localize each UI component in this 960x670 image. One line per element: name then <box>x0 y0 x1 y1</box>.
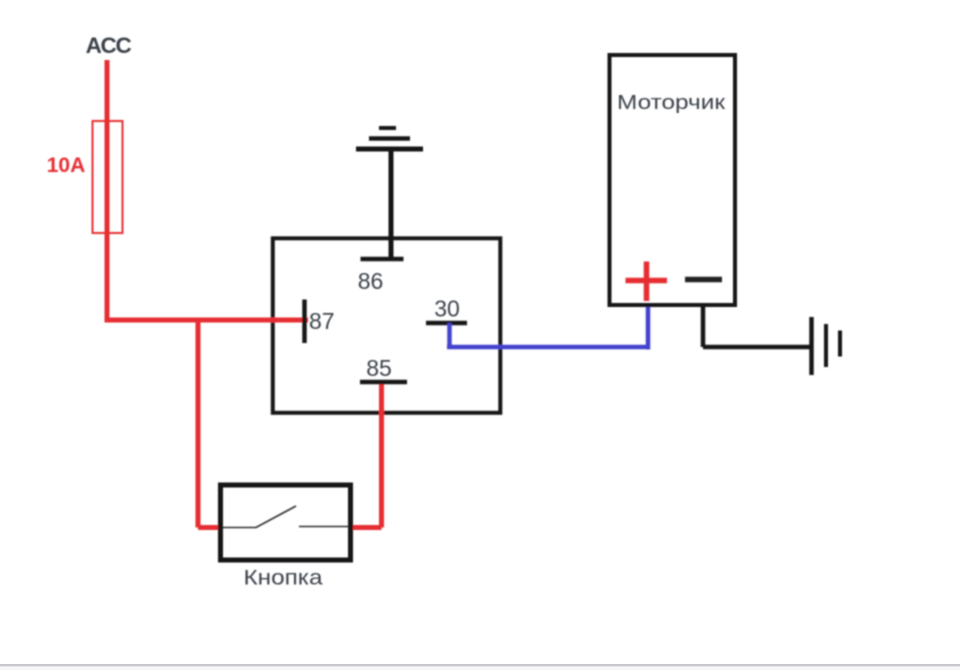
wire red from ACC through fuse to horizontal run to pin 87 <box>105 60 309 320</box>
svg-text:86: 86 <box>358 268 384 294</box>
wire black from motor minus to right ground <box>703 305 810 347</box>
ground (right, for motor minus) <box>812 317 841 375</box>
svg-text:Кнопка: Кнопка <box>244 567 323 590</box>
switch S1 contacts and lever <box>223 506 349 528</box>
pin 86 terminal bar <box>361 257 404 262</box>
fuse F1 10A body <box>93 121 123 233</box>
motor M1 body <box>610 55 736 305</box>
wire black ground stem to pin 86 <box>389 149 394 259</box>
motor minus terminal mark <box>685 277 722 283</box>
svg-text:85: 85 <box>366 355 392 381</box>
ground (top, for pin 86) <box>356 128 423 149</box>
svg-text:87: 87 <box>309 308 335 334</box>
page footer separator line <box>0 664 960 666</box>
svg-text:Моторчик: Моторчик <box>617 91 726 114</box>
wire red from pin 85 down to switch right terminal <box>350 381 382 528</box>
motor plus terminal mark <box>626 262 668 302</box>
svg-text:ACC: ACC <box>86 33 132 58</box>
relay K1 body <box>273 238 501 412</box>
pin 85 terminal bar <box>360 380 407 385</box>
wire blue from pin 30 to motor plus terminal <box>447 305 648 350</box>
pin 30 terminal bar <box>426 321 467 326</box>
pin 87 terminal bar <box>302 300 307 344</box>
switch S1 (Кнопка) body <box>221 485 351 560</box>
wire red branch down to switch left terminal <box>198 318 221 528</box>
svg-text:30: 30 <box>434 296 460 322</box>
svg-text:10A: 10A <box>47 154 86 177</box>
